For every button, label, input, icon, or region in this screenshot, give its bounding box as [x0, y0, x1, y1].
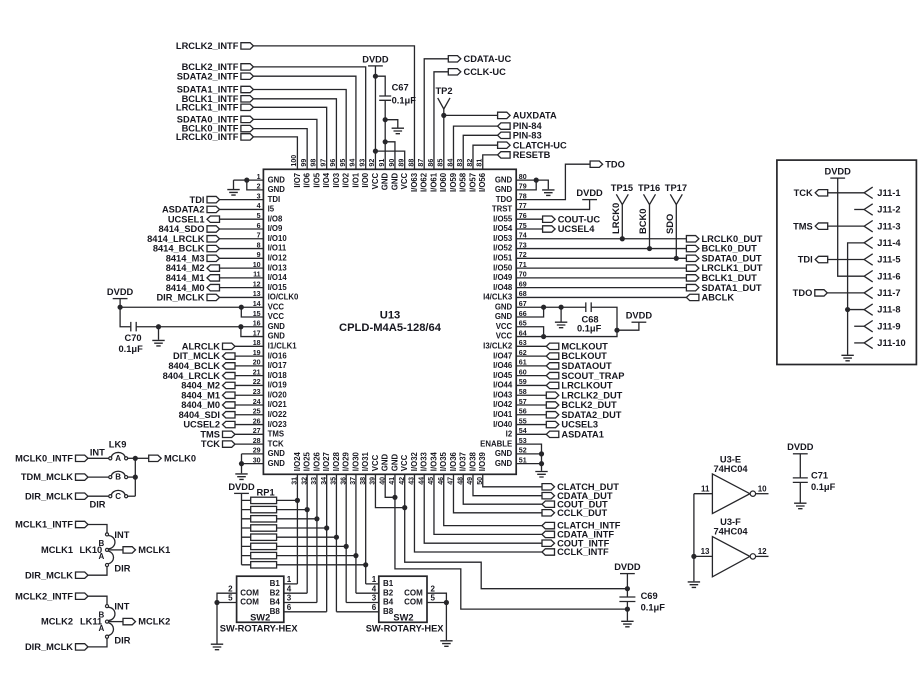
- svg-text:J11-7: J11-7: [877, 288, 900, 298]
- wire BCLK2_INTF to pin 93: [253, 67, 365, 169]
- svg-text:C: C: [115, 492, 121, 501]
- wire C69 top: [626, 589, 628, 597]
- wire CCLK-UC to pin 86: [434, 72, 448, 170]
- svg-text:TCK: TCK: [794, 188, 813, 198]
- switch LK9 arm A: [111, 452, 125, 457]
- svg-text:8414_M1: 8414_M1: [166, 273, 205, 283]
- svg-text:BCLK1_DUT: BCLK1_DUT: [702, 273, 758, 283]
- wire pin 33 vertical: [316, 474, 318, 602]
- svg-text:TRST: TRST: [492, 205, 513, 214]
- svg-text:GND: GND: [268, 322, 286, 331]
- svg-text:DVDD: DVDD: [576, 188, 603, 198]
- node 8404_M2 flag: [223, 382, 236, 388]
- wire TCK to J11: [828, 192, 864, 194]
- junction pin 52: [539, 451, 544, 456]
- junction TP17: [674, 256, 679, 261]
- svg-text:J11-6: J11-6: [877, 271, 900, 281]
- node CLATCH_INTF flag: [542, 522, 555, 528]
- wire SW2 right B4 to pin 36: [346, 602, 379, 604]
- svg-text:I/O21: I/O21: [268, 400, 288, 409]
- svg-text:B8: B8: [270, 607, 281, 616]
- junction C69 bottom: [625, 607, 630, 612]
- junction pin16-17: [238, 324, 243, 329]
- wire 8404_M1 to pin 23: [235, 394, 264, 396]
- svg-text:GND: GND: [390, 454, 399, 472]
- wire to ground pins29-30: [241, 464, 243, 474]
- svg-text:DIR_MCLK: DIR_MCLK: [156, 293, 204, 303]
- svg-text:I/O43: I/O43: [493, 390, 513, 399]
- node BCLK1_INTF flag: [241, 96, 254, 102]
- wire DIR_MCLK to LK10 bottom: [88, 567, 107, 576]
- wire TMS to pin 27: [235, 433, 264, 435]
- svg-text:I2: I2: [506, 430, 513, 439]
- svg-text:I/O51: I/O51: [493, 254, 513, 263]
- wire pin 37 vertical: [355, 474, 357, 593]
- ground at C69: [621, 621, 633, 627]
- svg-text:MCLK1_INTF: MCLK1_INTF: [15, 520, 73, 530]
- svg-text:I5: I5: [268, 205, 275, 214]
- svg-text:A: A: [115, 454, 121, 463]
- svg-text:I/O2: I/O2: [342, 172, 351, 187]
- node CLATCH-UC flag: [498, 142, 511, 148]
- wire down to ground at C70: [158, 327, 160, 340]
- wire ALRCLK to pin 18: [235, 345, 264, 347]
- svg-text:TDO: TDO: [496, 195, 512, 204]
- svg-text:I/O19: I/O19: [268, 381, 288, 390]
- svg-text:I/O53: I/O53: [493, 234, 513, 243]
- svg-text:I/O25: I/O25: [303, 451, 312, 471]
- capacitor C68: [586, 302, 591, 312]
- wire pin 78 TDO: [516, 164, 590, 199]
- svg-text:I/O23: I/O23: [268, 420, 288, 429]
- svg-text:I/O16: I/O16: [268, 351, 288, 360]
- wire SW2 right B2 to pin 37: [356, 592, 379, 594]
- node CDATA_DUT flag: [542, 493, 555, 499]
- wire pin 47 CCLK_DUT: [453, 474, 542, 513]
- wire pin 58 LRCLK2_DUT: [516, 394, 546, 396]
- svg-text:I/O32: I/O32: [410, 451, 419, 471]
- svg-text:TDO: TDO: [793, 288, 813, 298]
- junction LK9 A: [133, 456, 138, 461]
- svg-text:AUXDATA: AUXDATA: [513, 111, 557, 121]
- svg-text:COM: COM: [404, 588, 423, 597]
- svg-text:I/O27: I/O27: [322, 452, 331, 471]
- svg-text:I/O7: I/O7: [293, 173, 302, 188]
- svg-text:UCSEL1: UCSEL1: [168, 214, 205, 224]
- junction RP1 row 6: [344, 544, 349, 549]
- svg-text:J11-1: J11-1: [877, 188, 900, 198]
- svg-text:8414_LRCLK: 8414_LRCLK: [147, 234, 205, 244]
- wire pin 30 GND: [242, 454, 264, 464]
- svg-text:GND: GND: [495, 312, 513, 321]
- svg-text:UCSEL3: UCSEL3: [561, 420, 598, 430]
- svg-text:3: 3: [372, 594, 377, 603]
- node TCK flag: [223, 441, 236, 447]
- svg-text:MCLK1: MCLK1: [41, 545, 73, 555]
- wire pin 48 COUT_DUT: [463, 474, 542, 504]
- wire C67 bottom to pin 91 GND: [384, 100, 386, 169]
- capacitor C71: [793, 478, 808, 483]
- wire pin 46 CLATCH_INTF: [444, 474, 542, 525]
- wire SW2 left B8 to pin 34: [284, 611, 327, 613]
- svg-text:I/O14: I/O14: [268, 273, 288, 282]
- test point TP2: [438, 98, 450, 109]
- svg-text:DVDD: DVDD: [228, 482, 255, 492]
- wire MCLK0_INTF to switch A: [88, 457, 109, 459]
- node COUT-UC flag: [543, 216, 556, 222]
- wire pin 61 SDATAOUT: [516, 365, 546, 367]
- svg-text:I/O58: I/O58: [459, 172, 468, 192]
- svg-text:I/O5: I/O5: [312, 172, 321, 187]
- svg-text:VCC: VCC: [496, 322, 513, 331]
- svg-text:I/O35: I/O35: [439, 451, 448, 471]
- svg-text:LRCK0: LRCK0: [610, 203, 621, 234]
- svg-text:0.1μF: 0.1μF: [641, 603, 666, 613]
- svg-text:SW2: SW2: [393, 613, 413, 623]
- ground at C67: [392, 128, 404, 134]
- wire pin 68 ABCLK: [516, 296, 686, 298]
- test point TP15: [616, 194, 628, 204]
- switch LK9 contact A right: [125, 457, 128, 460]
- svg-text:TP16: TP16: [638, 183, 660, 193]
- wire down to ground: [233, 180, 235, 189]
- svg-text:GND: GND: [268, 459, 286, 468]
- switch LK10 contact common: [105, 548, 108, 551]
- wire pin 17 GND: [241, 327, 264, 337]
- svg-text:TDI: TDI: [190, 195, 205, 205]
- svg-text:RP1: RP1: [257, 487, 275, 497]
- wire J11-9 stub: [854, 325, 864, 327]
- svg-text:TCK: TCK: [201, 439, 220, 449]
- svg-text:MCLK2: MCLK2: [138, 617, 170, 627]
- svg-text:TMS: TMS: [793, 221, 813, 231]
- wire pin 36 vertical: [345, 474, 347, 602]
- node MCLK0 flag: [149, 455, 162, 461]
- switch LK9 contact A left: [109, 457, 112, 460]
- wire 8414_M0 to pin 12: [219, 287, 263, 289]
- junction SW2 right COM: [444, 600, 449, 605]
- svg-text:2: 2: [431, 584, 436, 593]
- wire pin 50 CLATCH_DUT: [483, 474, 542, 487]
- svg-text:GND: GND: [268, 175, 286, 184]
- wire SW2 left B1 to pin 31: [284, 583, 298, 585]
- node ASDATA1 flag: [546, 431, 559, 437]
- svg-text:ASDATA2: ASDATA2: [162, 205, 205, 215]
- junction RP1 row 8: [363, 562, 368, 567]
- wire pin 90 GND: [385, 142, 395, 170]
- svg-text:LK10: LK10: [79, 545, 102, 555]
- svg-text:TMS: TMS: [200, 429, 220, 439]
- switch LK11 contact common: [105, 620, 108, 623]
- wire DIR_MCLK to switch C: [88, 495, 109, 497]
- wire 8414_SDO to pin 6: [219, 228, 263, 230]
- svg-text:I/O28: I/O28: [332, 451, 341, 471]
- wire TP15 to pin 74: [621, 205, 623, 239]
- node 8414_SDO flag: [207, 226, 220, 232]
- svg-text:VCC: VCC: [496, 332, 513, 341]
- node BCLK0_DUT flag: [686, 245, 699, 251]
- wire 8404_SDI to pin 25: [235, 414, 264, 416]
- node TMS flag: [815, 223, 828, 229]
- svg-text:MCLK0: MCLK0: [164, 453, 196, 463]
- node LRCLK1_INTF flag: [241, 104, 254, 110]
- test point TP16: [644, 194, 656, 204]
- svg-text:I/O52: I/O52: [493, 244, 513, 253]
- svg-text:I/O48: I/O48: [493, 283, 513, 292]
- wire PIN-83 to pin 83: [463, 135, 497, 169]
- svg-text:PIN-83: PIN-83: [513, 130, 542, 140]
- junction LK9 B: [133, 475, 138, 480]
- wire LRCLK1_INTF to pin 97: [253, 107, 326, 169]
- wire pin 70 BCLK1_DUT: [516, 277, 686, 279]
- wire UCSEL2 to pin 26: [235, 424, 264, 426]
- wire pin 39 VCC: [375, 474, 404, 507]
- ground pins 29-30: [235, 474, 247, 480]
- wire C71 to ground: [799, 482, 801, 502]
- wire 8414_LRCLK to pin 7: [219, 238, 263, 240]
- svg-text:I/O44: I/O44: [493, 381, 513, 390]
- svg-text:GND: GND: [390, 173, 399, 191]
- svg-text:CCLK-UC: CCLK-UC: [464, 67, 507, 77]
- svg-text:8404_BCLK: 8404_BCLK: [168, 361, 220, 371]
- wire pin 42 VCC to C69: [405, 474, 628, 588]
- U3-E output bubble: [750, 491, 755, 496]
- svg-text:SDATAOUT: SDATAOUT: [561, 361, 612, 371]
- wire SW2 right B8 to pin 35: [336, 611, 378, 613]
- svg-text:TP2: TP2: [435, 86, 452, 96]
- ground pins 51-53: [535, 472, 547, 478]
- svg-text:SDO: SDO: [664, 214, 675, 234]
- wire pin 67 GND to C68: [516, 306, 586, 308]
- switch LK9 contact C right: [125, 495, 128, 498]
- svg-text:CCLK_DUT: CCLK_DUT: [557, 508, 607, 518]
- power DVDD at C71: [787, 442, 814, 454]
- node BCLK2_INTF flag: [241, 64, 254, 70]
- wire J11-2 stub: [854, 208, 864, 210]
- junction pins 66-67: [541, 305, 546, 310]
- svg-text:ABCLK: ABCLK: [702, 293, 735, 303]
- wire LRCLK2_INTF to pin 88: [253, 46, 414, 169]
- svg-text:GND: GND: [268, 185, 286, 194]
- svg-text:GND: GND: [495, 185, 513, 194]
- svg-text:C70: C70: [125, 333, 142, 343]
- node MCLK0_INTF flag: [76, 455, 89, 461]
- svg-text:SDATA1_DUT: SDATA1_DUT: [702, 283, 762, 293]
- wire DVDD to C67 top: [375, 76, 385, 96]
- svg-text:VCC: VCC: [400, 173, 409, 190]
- wire DVDD to J11-6: [838, 178, 864, 276]
- svg-text:COM: COM: [240, 598, 259, 607]
- svg-text:TDO: TDO: [605, 159, 625, 169]
- capacitor C69: [619, 597, 635, 602]
- wire DVDD down to C70: [120, 307, 131, 327]
- svg-text:I/O50: I/O50: [493, 263, 513, 272]
- svg-text:IO/CLK0: IO/CLK0: [268, 293, 299, 302]
- svg-text:LK11: LK11: [80, 617, 102, 627]
- node COUT_INTF flag: [542, 540, 555, 546]
- svg-text:B1: B1: [383, 579, 394, 588]
- wire C70 to pin 16 GND: [136, 326, 263, 328]
- junction DVDD C69 top: [625, 586, 630, 591]
- node CCLK_INTF flag: [542, 549, 555, 555]
- wire BCLK0_INTF to pin 99: [253, 129, 307, 170]
- junction RP1 row 5: [334, 535, 339, 540]
- svg-text:DVDD: DVDD: [362, 54, 389, 64]
- svg-text:CLATCH-UC: CLATCH-UC: [513, 140, 567, 150]
- U13 pin numbers and pin names: [253, 155, 527, 485]
- node TDO flag: [590, 161, 603, 167]
- IC U13 CPLD-M4A5-128/64 body: [263, 169, 516, 474]
- wire J11-8 stub: [848, 309, 865, 311]
- wire J11-10 stub: [854, 342, 864, 344]
- wire DVDD to pin 77 TRST: [516, 200, 589, 210]
- junction RP1 row 3: [314, 516, 319, 521]
- wire to ground at C67: [385, 120, 398, 128]
- wire LK11 common to MCLK2: [109, 621, 123, 623]
- junction RP1 row 4: [324, 525, 329, 530]
- wire J11-4 to ground rail: [848, 243, 865, 355]
- svg-text:LRCLK1_DUT: LRCLK1_DUT: [702, 263, 763, 273]
- wire SW2 right COM2: [427, 602, 446, 604]
- node LRCLK0_INTF flag: [241, 134, 254, 140]
- junction pin14-15: [239, 305, 244, 310]
- svg-text:2: 2: [228, 584, 233, 593]
- wire TP16 to pin 73: [649, 205, 651, 249]
- junction U3-F input: [691, 554, 696, 559]
- node CCLK-UC flag: [448, 69, 461, 75]
- junction pins 64-65: [541, 334, 546, 339]
- svg-text:1: 1: [372, 575, 377, 584]
- wire pin 2 GND: [247, 180, 264, 190]
- svg-text:CCLK_INTF: CCLK_INTF: [557, 547, 609, 557]
- node 8414_M2 flag: [207, 265, 220, 271]
- node 8414_BCLK flag: [207, 245, 220, 251]
- svg-text:BCLK2_DUT: BCLK2_DUT: [561, 400, 617, 410]
- node TCK flag: [815, 190, 828, 196]
- node DIR_MCLK flag at LK11: [76, 644, 89, 650]
- svg-text:COM: COM: [240, 588, 259, 597]
- wire pin 34 vertical: [326, 474, 328, 612]
- connector J11 body: [777, 160, 917, 364]
- svg-text:TDM_MCLK: TDM_MCLK: [21, 472, 73, 482]
- wire U3-F input pin 13: [694, 555, 713, 557]
- node TDI flag: [815, 256, 828, 262]
- wire pin 66 GND: [516, 307, 543, 317]
- wire SW2 left B4 to pin 33: [284, 602, 317, 604]
- svg-text:GND: GND: [495, 449, 513, 458]
- svg-text:J11-2: J11-2: [877, 205, 900, 215]
- wire 8404_LRCLK to pin 21: [235, 375, 264, 377]
- svg-text:TDI: TDI: [798, 255, 813, 265]
- node UCSEL1 flag: [207, 216, 220, 222]
- svg-text:3: 3: [287, 594, 292, 603]
- node BCLK0_INTF flag: [241, 125, 254, 131]
- svg-text:1: 1: [287, 575, 292, 584]
- node 8404_LRCLK flag: [223, 372, 236, 378]
- wire SDATA0_INTF to pin 98: [253, 119, 317, 169]
- node LRCLK2_DUT flag: [546, 392, 559, 398]
- svg-text:CDATA-UC: CDATA-UC: [464, 54, 512, 64]
- svg-text:I/O56: I/O56: [478, 172, 487, 192]
- svg-text:I/O30: I/O30: [351, 451, 360, 471]
- node ASDATA2 flag: [207, 206, 220, 212]
- svg-text:B4: B4: [270, 598, 281, 607]
- svg-text:J11-9: J11-9: [877, 321, 900, 331]
- svg-text:I/O17: I/O17: [268, 361, 287, 370]
- wire pin 29 GND: [242, 453, 264, 455]
- svg-text:I/O4: I/O4: [322, 172, 331, 187]
- wire MCLK2_INTF to LK11 top: [88, 596, 107, 604]
- node LRCLKOUT flag: [546, 382, 559, 388]
- wire LRCLK0_INTF to pin 100: [253, 137, 297, 169]
- svg-text:BCLKOUT: BCLKOUT: [561, 351, 607, 361]
- svg-text:I/O38: I/O38: [468, 451, 477, 471]
- svg-text:B2: B2: [383, 588, 394, 597]
- svg-text:LRCLK1_INTF: LRCLK1_INTF: [176, 102, 239, 112]
- svg-text:I/O37: I/O37: [459, 452, 468, 471]
- node LRCLK0_DUT flag: [686, 236, 699, 242]
- junction DVDD pin14: [118, 305, 123, 310]
- switch LK11 contact B: [105, 605, 108, 608]
- ground at J11: [841, 355, 853, 361]
- svg-text:MCLKOUT: MCLKOUT: [561, 341, 608, 351]
- wire pin 76 COUT-UC: [516, 218, 542, 220]
- svg-text:12: 12: [758, 547, 767, 556]
- resistor pack RP1 (8 resistors): [242, 497, 366, 568]
- node DIR_MCLK flag: [207, 294, 220, 300]
- svg-text:I/O59: I/O59: [449, 172, 458, 192]
- svg-text:LRCLK2_DUT: LRCLK2_DUT: [561, 390, 622, 400]
- wire U3-E input pin 11: [694, 493, 713, 495]
- node BCLK1_DUT flag: [686, 275, 699, 281]
- wire 8414_M3 to pin 9: [219, 257, 263, 259]
- wire to ground at C68: [560, 307, 562, 321]
- wire pin 69 SDATA1_DUT: [516, 287, 686, 289]
- svg-text:8414_M3: 8414_M3: [166, 253, 205, 263]
- wire pin 55 UCSEL3: [516, 424, 546, 426]
- node TDI flag: [207, 196, 220, 202]
- svg-text:MCLK0_INTF: MCLK0_INTF: [15, 453, 73, 463]
- wire pin 62 BCLKOUT: [516, 355, 546, 357]
- wire UCSEL1 to pin 5: [219, 218, 263, 220]
- ground SW2 left: [211, 644, 223, 650]
- svg-text:DIT_MCLK: DIT_MCLK: [173, 351, 220, 361]
- svg-text:I3/CLK2: I3/CLK2: [483, 342, 513, 351]
- node UCSEL2 flag: [223, 421, 236, 427]
- svg-text:SW-ROTARY-HEX: SW-ROTARY-HEX: [366, 623, 445, 633]
- svg-text:GND: GND: [495, 175, 513, 184]
- svg-text:SCOUT_TRAP: SCOUT_TRAP: [561, 371, 624, 381]
- wire TP17 to pin 72: [675, 205, 677, 259]
- wire TCK to pin 28: [235, 443, 264, 445]
- svg-text:B2: B2: [270, 588, 281, 597]
- wire CDATA-UC to pin 87: [424, 59, 448, 170]
- wire pin 14 VCC: [120, 306, 263, 308]
- node TMS flag: [223, 431, 236, 437]
- svg-text:INT: INT: [114, 602, 129, 612]
- wire TDI to pin 3: [219, 199, 263, 201]
- junction ground C68: [559, 305, 564, 310]
- power DVDD top: [362, 54, 389, 66]
- junction J11-8 ground rail: [845, 307, 850, 312]
- svg-text:I/O60: I/O60: [439, 172, 448, 192]
- node SCOUT_TRAP flag: [546, 372, 559, 378]
- junction pins 79-80: [534, 178, 539, 183]
- node ALRCLK flag: [223, 343, 236, 349]
- junction pins 29-30: [239, 461, 244, 466]
- junction TP15: [620, 236, 625, 241]
- node PIN-83 flag: [498, 132, 511, 138]
